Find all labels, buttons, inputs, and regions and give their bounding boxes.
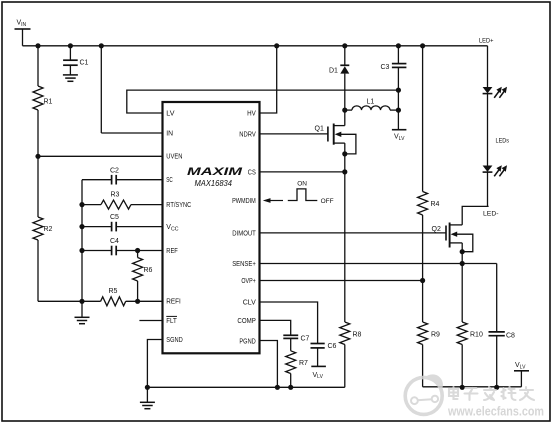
svg-text:RT/SYNC: RT/SYNC [166, 202, 191, 209]
svg-text:IN: IN [166, 130, 173, 137]
svg-text:REFI: REFI [166, 299, 181, 306]
svg-text:SC: SC [166, 177, 173, 184]
svg-text:D1: D1 [329, 67, 338, 74]
svg-text:PWMDIM: PWMDIM [232, 198, 256, 205]
svg-text:C3: C3 [381, 64, 390, 71]
svg-text:SENSE+: SENSE+ [232, 261, 256, 268]
svg-text:LV: LV [166, 110, 175, 117]
svg-text:R4: R4 [431, 201, 440, 208]
svg-text:C1: C1 [80, 60, 89, 67]
svg-text:UVEN: UVEN [166, 154, 182, 161]
svg-text:CLV: CLV [243, 299, 256, 306]
svg-text:R9: R9 [431, 332, 440, 339]
svg-text:SGND: SGND [166, 337, 183, 344]
svg-text:R6: R6 [144, 267, 153, 274]
svg-text:R3: R3 [111, 192, 120, 199]
svg-text:ON: ON [297, 181, 307, 188]
svg-text:R7: R7 [299, 360, 308, 367]
svg-text:R2: R2 [44, 226, 53, 233]
svg-text:www.elecfans.com: www.elecfans.com [447, 403, 544, 418]
svg-text:C2: C2 [110, 168, 119, 175]
svg-text:R10: R10 [470, 332, 483, 339]
svg-text:MAX16834: MAX16834 [195, 178, 233, 188]
svg-text:C6: C6 [328, 343, 337, 350]
svg-text:OFF: OFF [321, 198, 334, 205]
svg-text:C8: C8 [506, 333, 515, 340]
svg-text:CS: CS [248, 169, 256, 176]
svg-text:FLT: FLT [166, 318, 177, 325]
svg-text:Q1: Q1 [315, 126, 324, 133]
svg-text:PGND: PGND [239, 338, 255, 345]
svg-text:C4: C4 [110, 238, 119, 245]
svg-text:OVP+: OVP+ [241, 278, 255, 285]
svg-text:C5: C5 [110, 214, 119, 221]
svg-text:HV: HV [247, 110, 256, 117]
svg-text:REF: REF [166, 248, 178, 255]
svg-text:DIMOUT: DIMOUT [232, 230, 256, 237]
svg-text:MAXIM: MAXIM [187, 166, 244, 178]
svg-text:C7: C7 [301, 336, 310, 343]
svg-text:COMP: COMP [237, 318, 256, 325]
svg-text:Q2: Q2 [432, 226, 441, 233]
svg-text:R5: R5 [109, 288, 118, 295]
svg-text:R8: R8 [353, 332, 362, 339]
svg-text:R1: R1 [44, 99, 53, 106]
svg-text:LEDs: LEDs [496, 138, 510, 145]
svg-text:L1: L1 [367, 99, 375, 106]
svg-text:NDRV: NDRV [239, 131, 256, 138]
svg-text:LED+: LED+ [479, 37, 494, 44]
svg-text:LED-: LED- [483, 210, 499, 217]
